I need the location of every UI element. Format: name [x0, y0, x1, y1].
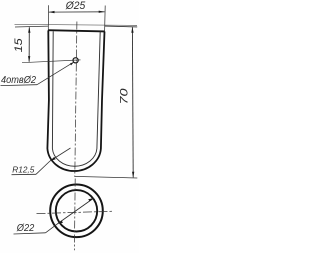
15 dimension line: [28, 27, 30, 62]
Ø22 arrow upper-right: [88, 198, 94, 201]
hole horizontal centerline / 15-dim bottom extension: [22, 60, 81, 63]
Ø22 leader tail: [46, 224, 58, 233]
Ø25 dimension line: [49, 11, 105, 13]
R12,5 leader tail: [36, 161, 50, 174]
70 arrow up: [131, 27, 133, 33]
15 arrow down: [28, 56, 30, 62]
R12,5 radius line: [50, 148, 71, 161]
bottom view outer circle: [50, 185, 103, 238]
Ø22 arrow lower-left: [58, 221, 64, 224]
leader arrow: [70, 62, 74, 65]
hole Ø2: [73, 58, 78, 63]
leader line to hole: [37, 62, 74, 84]
R12,5 arrow on arc: [50, 157, 56, 161]
bottom extension line (70 dim): [74, 176, 137, 178]
bottom view inner circle: [56, 190, 97, 231]
extension line left (Ø25): [47, 5, 49, 30]
svg-text:Ø22: Ø22: [16, 222, 35, 234]
extension line right (Ø25): [104, 6, 107, 32]
svg-text:15: 15: [13, 37, 25, 52]
15 arrow up: [28, 27, 30, 33]
svg-text:R12,5: R12,5: [12, 165, 34, 175]
thin top line (rim edge / extension level for 15 and 70 dims): [15, 24, 138, 25]
15-dim top extension segment: [15, 25, 48, 28]
70 dimension line: [131, 27, 134, 177]
svg-text:70: 70: [118, 87, 130, 104]
70-dim top extension segment: [105, 25, 138, 28]
svg-text:4отвØ2: 4отвØ2: [1, 75, 36, 86]
axis centerline (vertical, dash-dot): [75, 22, 77, 177]
tube inner wall contour: [52, 31, 100, 166]
vertical centerline of circle: [73, 179, 76, 251]
Ø22 diagonal dimension line: [58, 198, 94, 224]
leader shelf for 4 отв Ø2: [1, 84, 38, 87]
Ø22 shelf: [14, 233, 46, 234]
tube outer contour (front view): [47, 30, 104, 171]
horizontal centerline of circle: [37, 211, 113, 213]
svg-text:Ø25: Ø25: [65, 0, 86, 12]
tube top edge (thick): [48, 30, 105, 31]
Ø25 arrow right: [99, 11, 105, 13]
Ø25 arrow left: [49, 11, 55, 13]
R12,5 shelf: [12, 173, 37, 175]
70 arrow down: [132, 172, 134, 178]
